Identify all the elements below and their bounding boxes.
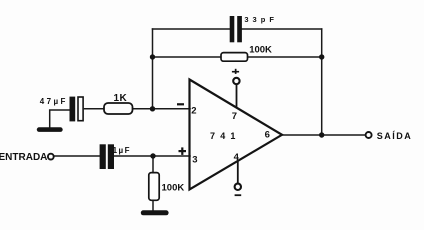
svg-text:33pF: 33pF xyxy=(244,15,278,24)
svg-text:4: 4 xyxy=(234,152,240,163)
svg-text:100K: 100K xyxy=(249,45,272,56)
wire right vertical feedback xyxy=(321,29,323,135)
wire ENTRADA to 1uF xyxy=(54,155,100,157)
wire 1uF to pin 3 xyxy=(114,155,190,157)
node feedback left at 100K row xyxy=(150,54,155,59)
ground (100K) xyxy=(141,210,169,215)
node output junction xyxy=(319,132,324,137)
wire node to 100K vertical resistor xyxy=(152,156,154,173)
capacitor 47uF xyxy=(40,97,83,122)
wire 47uF left stub xyxy=(50,110,70,128)
pin 7 label, wire and supply terminal + xyxy=(232,69,240,122)
ground (47uF) xyxy=(37,127,63,132)
wire top feedback right segment xyxy=(242,28,322,30)
svg-text:741: 741 xyxy=(210,131,241,141)
node pin 2 junction xyxy=(150,106,155,111)
svg-text:3: 3 xyxy=(192,154,197,165)
wire 100K vertical resistor to ground xyxy=(152,200,154,210)
terminal SAIDA xyxy=(366,131,413,141)
svg-text:47µF: 47µF xyxy=(40,97,68,106)
wire 1K to pin 2 xyxy=(133,108,191,110)
node junction dots xyxy=(150,54,325,158)
wire 100K row right xyxy=(248,56,322,58)
svg-text:6: 6 xyxy=(265,130,270,141)
svg-text:1K: 1K xyxy=(114,93,128,104)
svg-text:100K: 100K xyxy=(162,183,185,194)
wire top feedback left segment xyxy=(153,28,230,30)
terminal ENTRADA xyxy=(0,152,54,163)
svg-text:ENTRADA: ENTRADA xyxy=(0,152,47,163)
resistor 100K (pin 3 to ground) xyxy=(149,173,185,201)
pin 2 label and minus xyxy=(177,103,197,116)
op-amp U1 741 xyxy=(190,80,283,190)
wire left vertical feedback xyxy=(152,29,154,109)
svg-text:7: 7 xyxy=(232,111,237,122)
svg-text:SAÍDA: SAÍDA xyxy=(377,131,413,141)
svg-text:1µF: 1µF xyxy=(113,146,131,155)
pin 3 label and plus xyxy=(179,147,198,165)
capacitor 1uF (input) xyxy=(100,144,131,169)
wire 100K row left xyxy=(153,56,222,58)
wire 47uF to 1K xyxy=(85,108,105,110)
capacitor 33pF (feedback) xyxy=(230,15,278,42)
resistor 100K (feedback) xyxy=(221,45,272,61)
node pin 3 junction xyxy=(150,153,155,158)
pin 4 label, wire and supply terminal - xyxy=(234,152,242,196)
node feedback right at 100K row xyxy=(319,54,324,59)
resistor 1K xyxy=(104,93,133,114)
svg-text:2: 2 xyxy=(191,105,196,116)
wire op-amp output xyxy=(282,134,365,136)
